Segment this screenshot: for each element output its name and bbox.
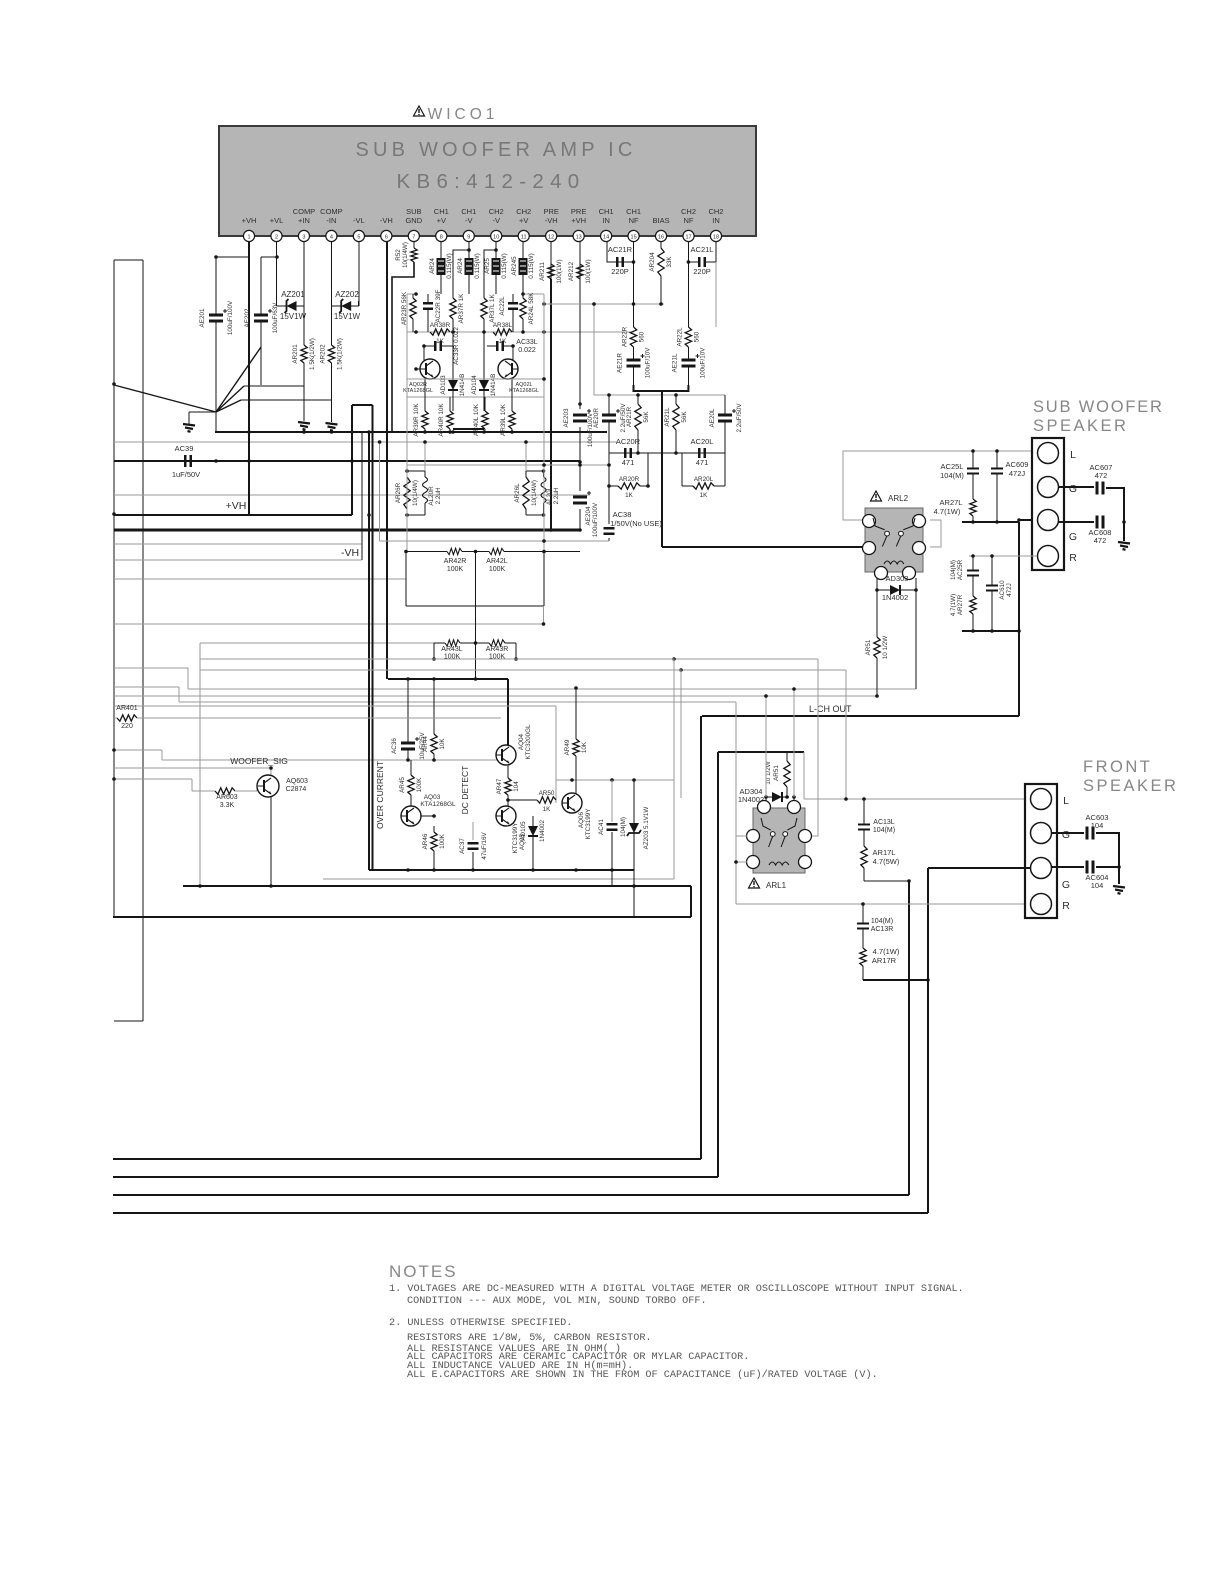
wire AC607 right bbox=[1106, 488, 1126, 541]
svg-text:R: R bbox=[1069, 552, 1077, 564]
ic pin 1 +VH bbox=[242, 216, 257, 242]
svg-text:10 1/2W: 10 1/2W bbox=[882, 636, 889, 660]
AC25R labels bbox=[950, 559, 964, 580]
wire AC604 right bbox=[1096, 866, 1119, 868]
svg-text:ALL E.CAPACITORS ARE SHOWN IN: ALL E.CAPACITORS ARE SHOWN IN THE FROM O… bbox=[407, 1369, 878, 1381]
svg-text:KTC3200GL: KTC3200GL bbox=[525, 724, 532, 759]
capacitor AC21R bbox=[617, 257, 622, 267]
svg-text:CH1: CH1 bbox=[626, 207, 641, 216]
capacitor AC607 bbox=[1097, 482, 1103, 495]
wire bus y768 woofer sig bbox=[114, 767, 271, 769]
AQ06 label bbox=[578, 808, 592, 840]
wire bus y668 bbox=[114, 667, 188, 669]
ic pin 11 CH2 +V bbox=[516, 207, 531, 242]
net label +VH bbox=[112, 500, 246, 516]
svg-text:AR24L 58K: AR24L 58K bbox=[528, 292, 535, 325]
svg-text:KB6:412-240: KB6:412-240 bbox=[397, 170, 586, 193]
junction bbox=[275, 255, 279, 259]
svg-text:17: 17 bbox=[685, 235, 691, 241]
R52 labels bbox=[395, 242, 409, 268]
svg-text:0.115(W): 0.115(W) bbox=[528, 253, 535, 278]
svg-text:AC25L: AC25L bbox=[941, 462, 964, 471]
capacitor AC20L bbox=[699, 448, 704, 458]
wire pin14 to AC21R bbox=[607, 242, 634, 262]
relay ARL1 bbox=[747, 801, 812, 891]
text NOTES header bbox=[389, 1262, 458, 1281]
transistor AQ04 bbox=[496, 745, 516, 765]
svg-text:AR17L: AR17L bbox=[873, 848, 896, 857]
svg-text:AR603: AR603 bbox=[216, 794, 238, 801]
svg-text:AR51: AR51 bbox=[865, 639, 872, 655]
AC13L labels bbox=[873, 819, 895, 834]
resistor AR401 bbox=[117, 715, 137, 721]
resistor AR24 at pin bbox=[457, 242, 481, 294]
resistor AR25 at pin bbox=[484, 242, 508, 294]
wire x736 bbox=[735, 702, 737, 904]
resistor AR38L bbox=[493, 322, 513, 345]
wire wire AE201 top bbox=[216, 256, 249, 258]
capacitor AC603 bbox=[1087, 827, 1093, 840]
svg-text:2.2uH: 2.2uH bbox=[435, 487, 442, 504]
svg-text:6: 6 bbox=[385, 235, 388, 241]
capacitor AE21L bbox=[671, 347, 706, 385]
junction bbox=[672, 657, 676, 661]
svg-text:AC41: AC41 bbox=[598, 819, 605, 835]
junction bbox=[214, 255, 218, 259]
resistor AR49 bbox=[564, 688, 588, 790]
svg-text:+V: +V bbox=[437, 216, 446, 225]
zener AZ201 bbox=[285, 299, 297, 313]
wire heavy bus y886 bbox=[183, 885, 691, 887]
ic pin 8 CH1 +V bbox=[434, 207, 449, 242]
capacitor AC22R bbox=[423, 289, 442, 332]
wire wire pin2 down bbox=[276, 242, 278, 301]
svg-text:SPEAKER: SPEAKER bbox=[1033, 417, 1128, 435]
svg-text:AR37L 1K: AR37L 1K bbox=[489, 293, 496, 322]
wire AQ603 emitter bbox=[269, 797, 273, 888]
svg-text:AC22R 39F: AC22R 39F bbox=[435, 289, 442, 322]
wire QL base bbox=[511, 344, 518, 369]
wire AD304 stubs bbox=[764, 687, 796, 806]
wire gray box B bbox=[200, 670, 681, 798]
AC37 labels bbox=[459, 822, 488, 870]
svg-text:104(M): 104(M) bbox=[873, 827, 895, 834]
resistor AR43R bbox=[486, 640, 509, 661]
svg-text:NF: NF bbox=[684, 216, 694, 225]
junction bbox=[679, 668, 683, 672]
svg-text:AD104: AD104 bbox=[471, 375, 478, 395]
capacitor AC37 bbox=[468, 843, 479, 848]
AE203 value bbox=[587, 412, 594, 447]
svg-text:1.5K(1/2W): 1.5K(1/2W) bbox=[337, 338, 344, 370]
svg-text:COMP: COMP bbox=[320, 207, 343, 216]
AD303 labels bbox=[882, 574, 909, 602]
wire x556 gray bbox=[555, 706, 557, 803]
wire AR17L bottom bbox=[864, 879, 911, 883]
svg-text:7: 7 bbox=[412, 235, 415, 241]
svg-text:472: 472 bbox=[1094, 536, 1107, 545]
svg-text:AE202: AE202 bbox=[244, 308, 251, 327]
svg-text:AR245: AR245 bbox=[511, 256, 518, 276]
wire QR base bbox=[416, 344, 426, 369]
capacitor AE203 bbox=[563, 408, 591, 427]
svg-text:CH2: CH2 bbox=[708, 207, 723, 216]
capacitor AC36 bbox=[391, 679, 426, 760]
svg-text:+VL: +VL bbox=[270, 216, 284, 225]
svg-text:3: 3 bbox=[302, 235, 305, 241]
ground fan gnd bbox=[183, 424, 195, 432]
wire L-CH OUT heavy bbox=[702, 715, 1019, 717]
wire bus y659 bbox=[200, 658, 818, 660]
capacitor AE202 bbox=[244, 257, 279, 385]
svg-text:0.022: 0.022 bbox=[518, 347, 536, 354]
transistor AQ603 bbox=[257, 775, 279, 797]
wire G2 front feed bbox=[928, 867, 1031, 869]
svg-text:AC39: AC39 bbox=[175, 444, 194, 453]
wire AR20 row bbox=[609, 484, 725, 488]
svg-text:104(M): 104(M) bbox=[620, 817, 627, 837]
resistor AR39L bbox=[500, 379, 515, 436]
svg-text:-VL: -VL bbox=[353, 216, 365, 225]
wire jog 668-689 bbox=[187, 668, 189, 689]
wire bus y689 bbox=[188, 688, 916, 690]
svg-text:4: 4 bbox=[330, 235, 333, 241]
svg-text:100K: 100K bbox=[489, 566, 506, 573]
svg-text:CH2: CH2 bbox=[681, 207, 696, 216]
svg-text:AR20R: AR20R bbox=[619, 476, 640, 483]
svg-text:AR27R: AR27R bbox=[957, 594, 964, 615]
ic pin 3 COMP +IN bbox=[293, 207, 316, 242]
wire x846 bbox=[844, 670, 848, 801]
svg-text:10K: 10K bbox=[581, 741, 588, 753]
resistor AR42L bbox=[486, 548, 508, 573]
AC38 labels bbox=[609, 510, 662, 541]
wire left vertical rail A bbox=[113, 260, 115, 917]
wire AC603 right bbox=[1096, 833, 1121, 884]
svg-text:-V: -V bbox=[492, 216, 500, 225]
svg-text:CH2: CH2 bbox=[489, 207, 504, 216]
wire bus y696 bbox=[114, 695, 877, 697]
svg-text:0.115(W): 0.115(W) bbox=[446, 253, 453, 278]
wire jog 779-791 bbox=[191, 779, 193, 791]
svg-text:3.3K: 3.3K bbox=[220, 802, 235, 809]
svg-text:ARL2: ARL2 bbox=[888, 494, 909, 503]
svg-text:AR25: AR25 bbox=[484, 258, 491, 274]
capacitor AC20R bbox=[625, 448, 630, 458]
ic pin 18 CH2 IN bbox=[708, 207, 723, 242]
svg-text:KTA1268GL: KTA1268GL bbox=[509, 388, 539, 394]
wire G1 front feed bbox=[1051, 832, 1084, 834]
diode AD105 bbox=[520, 816, 546, 870]
svg-text:AQ06: AQ06 bbox=[578, 811, 585, 828]
diode AD104 bbox=[471, 332, 497, 411]
wire wire pin3 down bbox=[303, 242, 305, 301]
svg-text:AC20L: AC20L bbox=[691, 437, 714, 446]
svg-text:220: 220 bbox=[121, 723, 133, 730]
capacitor AC33L bbox=[487, 341, 513, 351]
wire ARL1 left bot bbox=[734, 860, 747, 864]
wire y304 gray bbox=[542, 302, 664, 306]
inductor AL20L bbox=[541, 471, 560, 515]
svg-text:560: 560 bbox=[639, 331, 646, 342]
ic pin 2 +VL bbox=[270, 216, 284, 242]
wire gray box A bbox=[200, 659, 674, 879]
svg-text:AC610: AC610 bbox=[999, 580, 1006, 600]
svg-text:AR42R: AR42R bbox=[444, 558, 467, 565]
wire wire pin4 down bbox=[331, 242, 333, 301]
wire bus +VH bbox=[114, 514, 352, 516]
capacitor AC41 bbox=[607, 824, 618, 829]
svg-text:AD105: AD105 bbox=[520, 821, 527, 841]
resistor AR21L bbox=[664, 395, 688, 453]
svg-text:100(1W): 100(1W) bbox=[556, 259, 563, 283]
svg-text:15V1W: 15V1W bbox=[334, 312, 361, 321]
svg-text:AC25R: AC25R bbox=[957, 559, 964, 580]
AQ603 label bbox=[286, 778, 308, 793]
wire x804 down bbox=[803, 752, 805, 799]
zener AZ203 bbox=[627, 780, 641, 870]
wire bus y405 heavy bbox=[352, 404, 373, 406]
svg-text:R52: R52 bbox=[395, 249, 402, 261]
svg-text:1K: 1K bbox=[543, 806, 552, 813]
svg-text:CH1: CH1 bbox=[599, 207, 614, 216]
capacitor AE204 bbox=[573, 491, 591, 503]
wire subw bottom heavy bbox=[962, 520, 1019, 524]
AC39 labels bbox=[172, 444, 200, 479]
net label WOOFER_SIG bbox=[230, 756, 288, 766]
capacitor AC22L bbox=[499, 294, 518, 332]
svg-text:4.7(1W): 4.7(1W) bbox=[950, 594, 957, 616]
text SUB WOOFER bbox=[1033, 398, 1164, 435]
svg-text:BIAS: BIAS bbox=[653, 216, 670, 225]
wire bus y495 bbox=[114, 494, 590, 496]
svg-text:12: 12 bbox=[548, 235, 554, 241]
wire x634 jog bbox=[632, 870, 636, 917]
diode AD303 bbox=[877, 585, 916, 595]
svg-text:18: 18 bbox=[713, 235, 719, 241]
capacitor AC608 bbox=[1097, 516, 1103, 529]
svg-text:AE204: AE204 bbox=[585, 506, 592, 525]
resistor AR202 bbox=[320, 306, 344, 422]
wire AD bias heavy bbox=[414, 367, 514, 434]
svg-text:1.5K(1/2W): 1.5K(1/2W) bbox=[309, 338, 316, 370]
wire x612 jog bbox=[611, 870, 613, 886]
svg-text:13: 13 bbox=[576, 235, 582, 241]
AC41 labels bbox=[598, 780, 627, 870]
wire pin13 chain down bbox=[549, 279, 582, 532]
wire AR42 top bbox=[404, 550, 580, 554]
resistor AR17L bbox=[861, 846, 867, 881]
AC603 labels bbox=[1086, 813, 1109, 830]
svg-text:1uF/50V: 1uF/50V bbox=[172, 470, 200, 479]
junction dots relay bbox=[875, 694, 879, 698]
AR603 labels bbox=[216, 794, 238, 809]
junction dots left rail bbox=[112, 382, 116, 781]
svg-text:-IN: -IN bbox=[326, 216, 336, 225]
svg-text:1/50V(No USE): 1/50V(No USE) bbox=[610, 519, 662, 528]
ic pin 5 -VL bbox=[353, 216, 365, 242]
wire jog 750-760 bbox=[161, 750, 163, 760]
svg-text:AR46: AR46 bbox=[422, 833, 429, 849]
wire cluster box bbox=[407, 294, 544, 397]
ic pin 10 CH2 -V bbox=[489, 207, 504, 242]
wire wire pin6 down heavy bbox=[386, 242, 388, 679]
wire bus -VH heavy bbox=[114, 529, 580, 532]
zener AZ202 bbox=[339, 299, 351, 313]
connector front speaker bbox=[1025, 784, 1070, 918]
wire jog 643-659 bbox=[199, 643, 201, 659]
resistor AR21R bbox=[626, 395, 650, 453]
diode AD103 bbox=[440, 332, 466, 411]
wire ARL2 out feed bbox=[662, 546, 863, 548]
zener AZ201 sym bbox=[277, 301, 305, 306]
svg-text:1N414B: 1N414B bbox=[490, 374, 497, 397]
svg-text:G: G bbox=[1062, 879, 1070, 891]
wire cluster mid bbox=[407, 292, 634, 334]
text FRONT SPEAKER bbox=[1083, 758, 1178, 795]
svg-text:15: 15 bbox=[631, 235, 637, 241]
capacitor AC33R bbox=[424, 341, 453, 351]
inductor AL20R bbox=[423, 471, 443, 515]
AC33L label bbox=[516, 339, 538, 354]
AQ03 label bbox=[420, 794, 456, 808]
svg-text:10K: 10K bbox=[439, 738, 446, 750]
svg-text:104: 104 bbox=[1091, 881, 1104, 890]
AC33R label bbox=[453, 327, 460, 365]
svg-text:1: 1 bbox=[247, 235, 250, 241]
wire x200 gray bbox=[198, 659, 202, 888]
wire y706 gray bbox=[114, 705, 556, 707]
svg-text:AR38L: AR38L bbox=[493, 322, 513, 329]
svg-text:100(1W): 100(1W) bbox=[585, 259, 592, 283]
resistor AR51 front bbox=[784, 752, 790, 789]
svg-text:220P: 220P bbox=[611, 267, 629, 276]
AR17R labels bbox=[872, 947, 900, 965]
svg-text:AZ202: AZ202 bbox=[335, 290, 359, 299]
svg-text:AR37R 1K: AR37R 1K bbox=[458, 293, 465, 324]
svg-text:+VH: +VH bbox=[242, 216, 257, 225]
svg-text:AR20L: AR20L bbox=[694, 476, 714, 483]
capacitor AD610 bbox=[986, 556, 998, 631]
svg-text:AR401: AR401 bbox=[116, 705, 138, 712]
svg-text:AC33R 0.022: AC33R 0.022 bbox=[453, 327, 460, 365]
wire y465 gray bbox=[407, 463, 611, 467]
svg-text:471: 471 bbox=[622, 458, 635, 467]
svg-text:AD103: AD103 bbox=[440, 375, 447, 395]
AC607 label2 bbox=[1090, 463, 1113, 480]
transistor AQ05 bbox=[496, 806, 516, 826]
svg-text:104: 104 bbox=[513, 781, 520, 792]
svg-text:OVER CURRENT: OVER CURRENT bbox=[375, 761, 385, 829]
wire R52 bottom bbox=[392, 262, 414, 432]
svg-text:KTA1268GL: KTA1268GL bbox=[403, 388, 433, 394]
wire bus y702 bbox=[179, 701, 736, 703]
junction bbox=[367, 513, 389, 532]
svg-text:100K: 100K bbox=[416, 777, 423, 793]
svg-text:AR49: AR49 bbox=[564, 739, 571, 755]
OVER CURRENT label bbox=[375, 761, 385, 829]
svg-text:AR22L: AR22L bbox=[676, 327, 683, 347]
svg-text:2.2uF/50V: 2.2uF/50V bbox=[736, 403, 743, 433]
resistor AR245 at pin bbox=[511, 242, 535, 294]
wire pin9 jog bbox=[453, 248, 471, 298]
resistor AR24 at pin bbox=[429, 242, 453, 294]
net label L-CH OUT bbox=[809, 704, 852, 714]
svg-text:G: G bbox=[1062, 829, 1070, 841]
zener AZ202 label bbox=[334, 290, 361, 321]
svg-text:CH1: CH1 bbox=[434, 207, 449, 216]
wire bottom line A bbox=[113, 1158, 701, 1160]
svg-text:104: 104 bbox=[1091, 821, 1104, 830]
resistor AR40L bbox=[473, 397, 488, 436]
svg-text:AL20L: AL20L bbox=[546, 486, 553, 505]
resistor AR17R bbox=[860, 948, 866, 980]
wire woofer stem bbox=[269, 766, 273, 775]
wire ARL2 right top bbox=[930, 520, 941, 547]
svg-text:FRONT: FRONT bbox=[1083, 758, 1152, 776]
wire AC20L row bbox=[674, 451, 725, 455]
svg-text:SUB WOOFER AMP IC: SUB WOOFER AMP IC bbox=[355, 139, 636, 161]
svg-text:AR39L 10K: AR39L 10K bbox=[500, 403, 507, 436]
resistor AR51sub bbox=[865, 636, 889, 696]
svg-text:RESISTORS ARE 1/8W, 5%, CARBON: RESISTORS ARE 1/8W, 5%, CARBON RESISTOR. bbox=[407, 1332, 652, 1344]
wire bus y760 bbox=[162, 759, 501, 761]
svg-text:11: 11 bbox=[521, 235, 527, 241]
svg-text:-VH: -VH bbox=[380, 216, 393, 225]
svg-text:4.7(5W): 4.7(5W) bbox=[873, 857, 900, 866]
AC604 labels bbox=[1086, 873, 1109, 890]
svg-text:AE201: AE201 bbox=[199, 308, 206, 327]
svg-text:-VH: -VH bbox=[545, 216, 558, 225]
capacitor AC21L bbox=[688, 257, 716, 267]
svg-text:AR211: AR211 bbox=[539, 262, 546, 281]
svg-text:CH1: CH1 bbox=[461, 207, 476, 216]
wire bottom line D vert bbox=[927, 868, 929, 1213]
AR27L labels bbox=[934, 498, 963, 516]
wire wire AE202 top bbox=[261, 256, 277, 258]
svg-text:AC38: AC38 bbox=[613, 510, 632, 519]
resistor AR22R bbox=[622, 304, 646, 353]
ground front gnd bbox=[1113, 886, 1125, 894]
wire cluster top heavy bbox=[388, 677, 508, 681]
svg-text:10(1/4W): 10(1/4W) bbox=[402, 242, 409, 268]
AR27R labels bbox=[950, 594, 964, 616]
svg-text:AC13R: AC13R bbox=[871, 926, 894, 933]
ic pin 6 -VH bbox=[380, 216, 393, 242]
svg-text:AE203: AE203 bbox=[563, 408, 570, 427]
resistor AR46 bbox=[422, 826, 446, 870]
svg-text:KTC3199Y: KTC3199Y bbox=[585, 808, 592, 840]
resistor AR47 bbox=[496, 765, 520, 800]
resistor AR23R bbox=[401, 291, 416, 332]
wire bus y643 feed bbox=[200, 642, 434, 644]
svg-text:AR27L: AR27L bbox=[940, 498, 963, 507]
svg-text:AC609: AC609 bbox=[1006, 460, 1029, 469]
svg-text:2: 2 bbox=[275, 235, 278, 241]
relay ARL2 bbox=[863, 491, 926, 580]
resistor AR22L bbox=[676, 262, 700, 353]
svg-text:AR202: AR202 bbox=[320, 344, 327, 364]
wire pin15 down bbox=[632, 242, 636, 327]
ic pin 16 BIAS bbox=[653, 216, 670, 242]
svg-text:15V1W: 15V1W bbox=[280, 312, 307, 321]
wire AR603 to base bbox=[235, 786, 257, 791]
svg-text:+VH: +VH bbox=[226, 500, 247, 512]
svg-text:+VH: +VH bbox=[571, 216, 586, 225]
wire y760 dots bbox=[406, 758, 436, 762]
svg-text:COMP: COMP bbox=[293, 207, 316, 216]
svg-text:14: 14 bbox=[603, 235, 609, 241]
